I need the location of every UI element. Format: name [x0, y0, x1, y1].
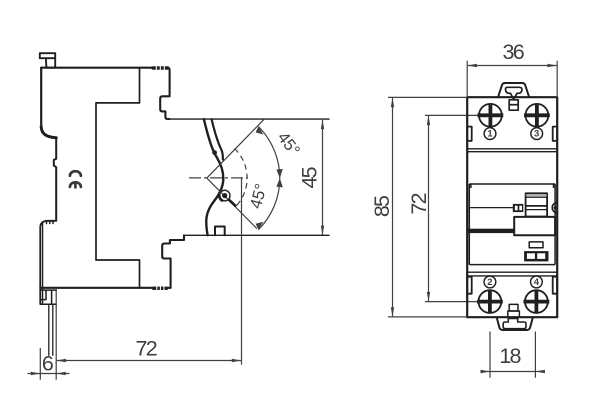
- dim 18 arrow right outside: [535, 370, 545, 373]
- dashed swing arc: [235, 149, 248, 208]
- panel horizontal line: [469, 207, 513, 209]
- top side slots: [467, 127, 472, 141]
- CE mark E glyph: [70, 182, 81, 187]
- side view inner contour step: [96, 68, 140, 288]
- svg-text:85: 85: [370, 195, 394, 217]
- test button: [524, 251, 548, 261]
- upper separator double line: [467, 149, 557, 152]
- circled number 3: [531, 128, 543, 140]
- side view lower-front clip and face: [162, 235, 184, 287]
- side view back hook step: [41, 127, 56, 138]
- arrowhead upper arc at ray: [256, 127, 264, 135]
- side view back face upper: [40, 68, 42, 127]
- front body rectangle: [467, 97, 557, 317]
- slot to window link lines: [510, 99, 516, 100]
- dim 72 left line: [428, 116, 430, 301]
- CE mark C glyph: [70, 171, 81, 176]
- dim 36 line: [468, 65, 557, 67]
- centerline horizontal dash-dot: [189, 177, 248, 179]
- front foot tab: [215, 227, 225, 236]
- bottom mounting tab: [497, 317, 533, 330]
- side view top edge serrations: [153, 66, 168, 69]
- bottom side slots: [467, 277, 472, 294]
- dim 18 line: [481, 371, 545, 373]
- upper 45-degree arc: [258, 127, 279, 179]
- front top mounting tab: [498, 83, 529, 97]
- dim 72 arrow left: [56, 359, 66, 362]
- phantom lever stub: [229, 200, 237, 207]
- front top edge line (continues as 45-dim extension): [167, 118, 329, 120]
- label window: [529, 242, 543, 248]
- dim 6: extension lines: [40, 288, 56, 380]
- clip pull tail: [49, 304, 53, 355]
- toggle lever right edge: [212, 119, 223, 159]
- dim 18: extension lines: [490, 332, 535, 378]
- svg-text:45°: 45°: [274, 129, 304, 160]
- dim 72 left: extension lines: [425, 115, 479, 301]
- svg-text:1: 1: [487, 129, 493, 140]
- phantom lever pivot dot: [222, 193, 227, 198]
- dim 85: extension lines: [388, 97, 466, 317]
- bottom tab slot: [503, 319, 526, 329]
- terminal screw 1 (top-left): [479, 104, 502, 127]
- side view top DIN tab: [40, 53, 55, 67]
- circled number 1: [484, 128, 496, 140]
- circled number 4: [531, 276, 543, 288]
- dim 45 arrow top: [321, 120, 324, 130]
- side view top and upper-front outline: [41, 68, 169, 119]
- side view bottom edge: [40, 287, 170, 289]
- dim 72 bottom line: [57, 360, 241, 362]
- bottom center small windows: [509, 304, 518, 311]
- side view bottom edge serrations: [154, 287, 167, 290]
- 45 degree ray up-right: [207, 120, 264, 179]
- clip bottom block: [40, 290, 56, 304]
- mid panel edges: [469, 184, 555, 265]
- dark slot band: [468, 229, 515, 233]
- side view back face mid with notch: [54, 138, 56, 221]
- 45 degree ray down-right: [207, 178, 257, 229]
- dim 72 bottom: extension line right: [241, 179, 243, 365]
- dim 18 arrow left outside: [481, 370, 491, 373]
- toggle handle with grip stripes: [526, 193, 548, 216]
- dim 6 arrow right outside: [56, 372, 65, 375]
- dim 85 line: [392, 98, 394, 317]
- dim 85 arrow bottom: [391, 307, 394, 317]
- svg-text:45°: 45°: [247, 182, 271, 211]
- svg-text:72: 72: [136, 336, 157, 360]
- arrowhead lower arc at ray: [256, 222, 264, 230]
- clip serration teeth: [47, 221, 54, 224]
- dim 45 vertical line: [322, 120, 324, 235]
- right edge button semicircle: [552, 202, 557, 212]
- dim 72 arrow right: [232, 359, 242, 362]
- rocker box: [514, 217, 555, 235]
- svg-text:4: 4: [534, 277, 540, 288]
- terminal screw 2 (bottom-left): [479, 290, 502, 313]
- dim 45 arrow bottom: [321, 226, 324, 236]
- phantom lever heel arc: [219, 194, 223, 201]
- dim 6 line: [28, 373, 70, 375]
- dim 72 left arrow top: [427, 116, 430, 126]
- svg-text:6: 6: [42, 351, 54, 375]
- front bottom edge line (continues as 45-dim extension): [184, 234, 329, 236]
- dim 85 arrow top: [391, 98, 394, 108]
- svg-text:18: 18: [499, 344, 521, 368]
- front top tab slot: [506, 87, 522, 98]
- dim 36 arrow left: [467, 64, 477, 67]
- indicator window: [513, 204, 524, 212]
- svg-text:72: 72: [407, 193, 431, 214]
- dim 6 arrow left outside: [31, 372, 41, 375]
- dim 72 left arrow bottom: [427, 292, 430, 302]
- phantom lever pivot ring: [219, 190, 230, 201]
- lever pivot dot: [212, 150, 217, 155]
- lower 45-degree arc: [258, 178, 279, 230]
- dim 36: extension lines: [467, 61, 557, 96]
- lower separator double line: [467, 272, 557, 276]
- svg-text:45: 45: [298, 166, 322, 188]
- clip inner wall line: [42, 223, 44, 304]
- terminal screw 4 (bottom-right): [525, 290, 548, 313]
- circled number 2: [484, 276, 496, 288]
- svg-text:2: 2: [487, 277, 492, 288]
- svg-text:36: 36: [503, 40, 525, 64]
- toggle lever left edge and face curve: [204, 119, 223, 235]
- side view bottom DIN clip: [40, 221, 56, 304]
- dim 36 arrow right: [548, 64, 558, 67]
- arrowhead lower arc at centerline: [276, 178, 282, 187]
- arrowhead upper arc at centerline: [276, 169, 282, 178]
- svg-text:3: 3: [534, 129, 539, 140]
- terminal screw 3 (top-right): [526, 104, 549, 127]
- double window below tab: [509, 100, 518, 110]
